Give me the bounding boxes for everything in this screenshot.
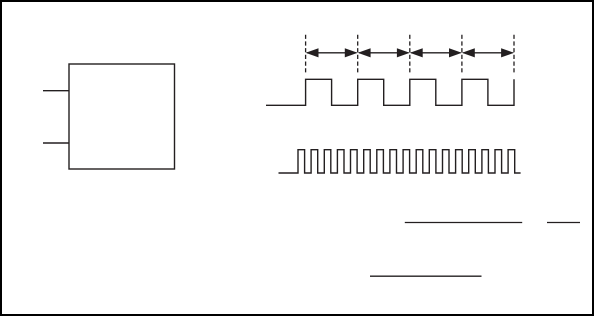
period marker dashed line 1 <box>305 35 307 74</box>
period arrow 4 <box>463 49 512 57</box>
period marker dashed line 2 <box>357 35 359 74</box>
period arrow 3 <box>411 49 460 57</box>
divider block U1 <box>69 64 175 169</box>
wire input 1 <box>43 90 69 92</box>
period marker dashed line 3 <box>409 35 411 74</box>
period arrow 2 <box>359 49 408 57</box>
period marker dashed line 4 <box>461 35 463 74</box>
period arrow 1 <box>307 49 356 57</box>
fraction bar 2 (short equation bar) <box>547 222 580 224</box>
period marker dashed line 5 <box>513 35 515 74</box>
fraction bar 3 (lower equation bar) <box>370 275 482 277</box>
clock waveform (fast input clock) <box>279 150 521 173</box>
wire input 2 <box>43 142 69 144</box>
fraction bar 1 (long equation bar) <box>405 222 522 224</box>
output waveform (divided clock) <box>266 79 514 105</box>
